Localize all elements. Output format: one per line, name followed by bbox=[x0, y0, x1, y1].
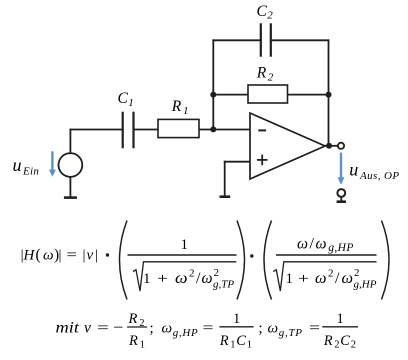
resistor R2 bbox=[248, 85, 288, 103]
svg-text:1: 1 bbox=[140, 340, 145, 351]
junction node input bbox=[210, 126, 216, 132]
label R1 bbox=[171, 98, 189, 117]
svg-text:R: R bbox=[323, 333, 333, 349]
wire output bbox=[325, 145, 338, 147]
big paren close 1 bbox=[237, 221, 245, 300]
svg-text:ω: ω bbox=[316, 236, 327, 253]
svg-text:−: − bbox=[113, 320, 123, 337]
svg-text:ω: ω bbox=[268, 321, 279, 337]
svg-text:2: 2 bbox=[351, 340, 356, 351]
svg-text:=: = bbox=[309, 321, 320, 337]
svg-text:2: 2 bbox=[268, 71, 274, 83]
formula line 2 bbox=[56, 311, 359, 351]
wire source bottom stem bbox=[69, 177, 71, 197]
svg-text:=: = bbox=[97, 321, 109, 337]
wire source top stem bbox=[69, 130, 71, 154]
svg-text:R: R bbox=[219, 333, 229, 349]
ground at source bbox=[64, 196, 77, 199]
svg-text:ω: ω bbox=[43, 248, 54, 264]
fraction 2 numerator bbox=[297, 236, 354, 255]
sqrt 2 radical bbox=[273, 262, 376, 291]
ground at op-amp plus bbox=[220, 195, 231, 198]
svg-text:1: 1 bbox=[337, 311, 344, 327]
fraction R2 over R1 bbox=[127, 311, 147, 351]
big paren close 2 bbox=[382, 221, 390, 300]
svg-text:/: / bbox=[196, 270, 201, 287]
wire C2 top row bbox=[213, 39, 328, 41]
label R2 bbox=[256, 65, 274, 84]
fraction 2 bar bbox=[276, 254, 377, 256]
output lower terminal bbox=[337, 189, 346, 202]
svg-text:g,TP: g,TP bbox=[279, 327, 303, 339]
sqrt 1 radical bbox=[133, 262, 236, 291]
svg-text:C: C bbox=[257, 3, 268, 20]
svg-text:R: R bbox=[256, 65, 267, 82]
svg-text:1: 1 bbox=[128, 97, 134, 109]
junction node R2 left bbox=[210, 92, 216, 98]
svg-text:ω: ω bbox=[202, 270, 213, 287]
svg-text:g,HP: g,HP bbox=[354, 279, 377, 291]
svg-text:2: 2 bbox=[354, 267, 360, 279]
sqrt 2 content bbox=[286, 267, 377, 291]
op-amp U1 bbox=[250, 113, 325, 179]
svg-text:C: C bbox=[118, 90, 129, 107]
omega g,HP bbox=[162, 321, 199, 340]
svg-text:1: 1 bbox=[143, 271, 151, 287]
wire op-amp plus input bbox=[225, 162, 250, 196]
svg-text:Ein: Ein bbox=[22, 165, 39, 177]
mit v = minus bbox=[56, 320, 124, 337]
op-amp minus pin label bbox=[258, 129, 266, 131]
multiplication dot 1 bbox=[106, 253, 109, 256]
svg-text:+: + bbox=[157, 271, 168, 287]
svg-text:=: = bbox=[203, 321, 214, 337]
svg-text:|: | bbox=[95, 248, 98, 264]
wire right feedback vertical bbox=[328, 40, 330, 146]
svg-text:2: 2 bbox=[334, 340, 339, 351]
svg-text:g,HP: g,HP bbox=[328, 242, 354, 254]
fraction 1 over R1C1 bbox=[219, 311, 254, 351]
svg-text:1: 1 bbox=[183, 105, 189, 117]
svg-text:+: + bbox=[298, 271, 309, 287]
svg-text:R: R bbox=[128, 311, 138, 327]
svg-text:H: H bbox=[23, 248, 36, 264]
svg-text:ω: ω bbox=[342, 270, 354, 287]
fraction 1 bar bbox=[128, 254, 237, 256]
label C1 bbox=[118, 90, 134, 109]
resistor R1 bbox=[158, 119, 199, 137]
wire input row bbox=[70, 129, 250, 131]
svg-text:/: / bbox=[310, 236, 315, 253]
big paren open 1 bbox=[120, 221, 128, 300]
multiplication dot 2 bbox=[250, 254, 253, 257]
junction node output bbox=[326, 143, 332, 149]
svg-text:u: u bbox=[13, 155, 22, 175]
svg-text:|: | bbox=[59, 248, 62, 264]
svg-text:u: u bbox=[349, 160, 358, 180]
voltage source circle bbox=[59, 153, 83, 177]
label u_Aus_OP bbox=[349, 160, 399, 183]
capacitor C1 bbox=[123, 112, 134, 149]
svg-text:(: ( bbox=[36, 247, 41, 264]
formula line 1 bbox=[21, 221, 389, 300]
svg-text:C: C bbox=[236, 333, 246, 349]
wire left feedback vertical bbox=[212, 40, 214, 129]
svg-text:ω: ω bbox=[297, 236, 308, 253]
svg-text:ω: ω bbox=[175, 270, 188, 287]
svg-text:v: v bbox=[87, 248, 94, 264]
svg-text:/: / bbox=[335, 270, 340, 287]
fraction 1 over R2C2 bbox=[322, 311, 358, 351]
svg-text:ω: ω bbox=[162, 321, 173, 337]
svg-text:Aus, OP: Aus, OP bbox=[359, 170, 399, 182]
label u_Ein bbox=[13, 155, 40, 177]
sqrt 1 content bbox=[143, 267, 234, 291]
svg-text:v: v bbox=[84, 320, 91, 337]
svg-text:=: = bbox=[66, 248, 77, 264]
svg-text:g,HP: g,HP bbox=[173, 327, 199, 339]
svg-text:ω: ω bbox=[315, 270, 327, 287]
svg-text:|: | bbox=[83, 248, 86, 264]
svg-text:mit: mit bbox=[56, 320, 80, 337]
arrow u_Ein bbox=[49, 151, 56, 177]
svg-text:2: 2 bbox=[189, 268, 195, 280]
junction node R2 right bbox=[326, 92, 332, 98]
arrow u_Aus bbox=[338, 153, 345, 185]
big paren open 2 bbox=[264, 221, 272, 300]
svg-text:;: ; bbox=[259, 321, 263, 337]
capacitor C2 bbox=[261, 23, 271, 56]
svg-text:2: 2 bbox=[214, 267, 220, 279]
svg-text:1: 1 bbox=[181, 237, 189, 253]
svg-text:2: 2 bbox=[328, 268, 334, 280]
wire R2 row bbox=[213, 94, 328, 96]
omega g,TP bbox=[268, 321, 303, 340]
svg-text:C: C bbox=[340, 333, 350, 349]
svg-text:1: 1 bbox=[233, 311, 240, 327]
svg-text:1: 1 bbox=[230, 340, 235, 351]
op-amp plus pin label bbox=[257, 155, 268, 166]
svg-text:2: 2 bbox=[267, 10, 273, 22]
svg-text:R: R bbox=[128, 333, 138, 349]
svg-text:1: 1 bbox=[286, 271, 294, 287]
svg-text:;: ; bbox=[150, 321, 154, 337]
svg-text:g,TP: g,TP bbox=[213, 279, 234, 291]
formula |H(omega)| = |v| bbox=[21, 247, 98, 264]
svg-text:R: R bbox=[171, 98, 182, 115]
output terminal open circle bbox=[338, 143, 344, 149]
svg-text:1: 1 bbox=[247, 340, 252, 351]
label C2 bbox=[257, 3, 274, 22]
